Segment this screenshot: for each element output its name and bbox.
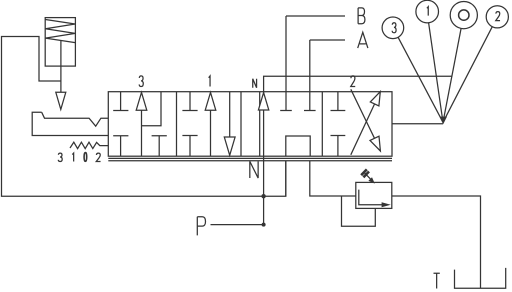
detent digit 0 xyxy=(84,153,87,162)
cell3 blocked port bottom right xyxy=(152,136,167,157)
junction P rail xyxy=(261,194,265,198)
cell1 blocked port top xyxy=(182,92,197,111)
position label 2 xyxy=(351,76,355,87)
relief valve RV1 body xyxy=(356,182,392,208)
cell2 blocked port top xyxy=(331,92,346,111)
divider spacer/N xyxy=(259,92,261,157)
cellN bridge xyxy=(286,136,310,156)
N bus line lower xyxy=(108,160,392,162)
riser relief feed xyxy=(310,161,356,196)
valve body V1 xyxy=(108,92,392,157)
position label 3 xyxy=(139,76,143,87)
label B xyxy=(358,8,365,24)
wire N indicator xyxy=(264,76,452,92)
position label 1 xyxy=(209,76,210,87)
indicator circle N outer xyxy=(450,2,477,29)
riser N to rail xyxy=(285,161,287,196)
line A xyxy=(310,39,345,41)
relief pilot loop xyxy=(342,196,376,226)
actuator stem xyxy=(60,40,62,92)
detent digit 3 xyxy=(58,153,62,161)
label A xyxy=(358,32,368,48)
cell3 blocked port top xyxy=(113,92,128,111)
junction P end xyxy=(262,223,266,227)
cell2 cross flow up xyxy=(351,104,375,155)
cell3 up arrow xyxy=(141,110,143,156)
wire relief to tank xyxy=(392,196,481,288)
label P xyxy=(197,217,205,236)
line B xyxy=(286,15,345,17)
cell1 blocked port bottom xyxy=(182,136,197,157)
indicator circle 1 xyxy=(416,0,439,23)
position label N xyxy=(253,79,257,88)
link circle2 xyxy=(443,27,492,123)
relief valve internal path xyxy=(359,190,382,205)
wire left loop xyxy=(2,37,286,197)
cell2 cross flow down xyxy=(351,89,375,138)
indicator circle 2 xyxy=(486,6,508,28)
indicator circle N inner xyxy=(459,10,469,20)
divider 1/spacer xyxy=(240,92,242,157)
wire P drop xyxy=(263,196,265,224)
cell1 up arrow xyxy=(210,110,212,156)
relief adjust spring arrow xyxy=(361,169,369,177)
link circleN xyxy=(443,28,461,122)
tank symbol xyxy=(455,268,506,288)
link circle1 xyxy=(429,23,443,123)
cellN blocked port A xyxy=(304,40,316,111)
selector pointer xyxy=(440,117,448,125)
cell2 blocked port bottom xyxy=(331,136,346,157)
pilot spring box K1 xyxy=(45,18,75,67)
cellN blocked port B xyxy=(280,16,292,111)
cell1 down arrow xyxy=(229,92,231,137)
detent digit 2 xyxy=(96,153,100,161)
line P xyxy=(211,224,264,226)
detent spring xyxy=(70,142,108,148)
divider 3/1 xyxy=(176,92,178,157)
indicator circle 3 xyxy=(382,17,404,39)
link circle3 xyxy=(398,37,443,122)
relief internal arrow xyxy=(382,202,391,207)
actuator arrow xyxy=(56,92,66,109)
label T xyxy=(434,273,440,288)
cellN up arrow P feed xyxy=(263,110,265,196)
cam plate xyxy=(32,112,108,135)
port label N bottom xyxy=(250,161,258,178)
wire selector to valve xyxy=(392,123,443,125)
cell3 blocked port bottom xyxy=(113,136,128,157)
cell3 branch xyxy=(142,92,162,126)
divider N/2 xyxy=(321,92,323,157)
detent digit 1 xyxy=(72,153,73,161)
N bus line upper xyxy=(108,157,392,159)
